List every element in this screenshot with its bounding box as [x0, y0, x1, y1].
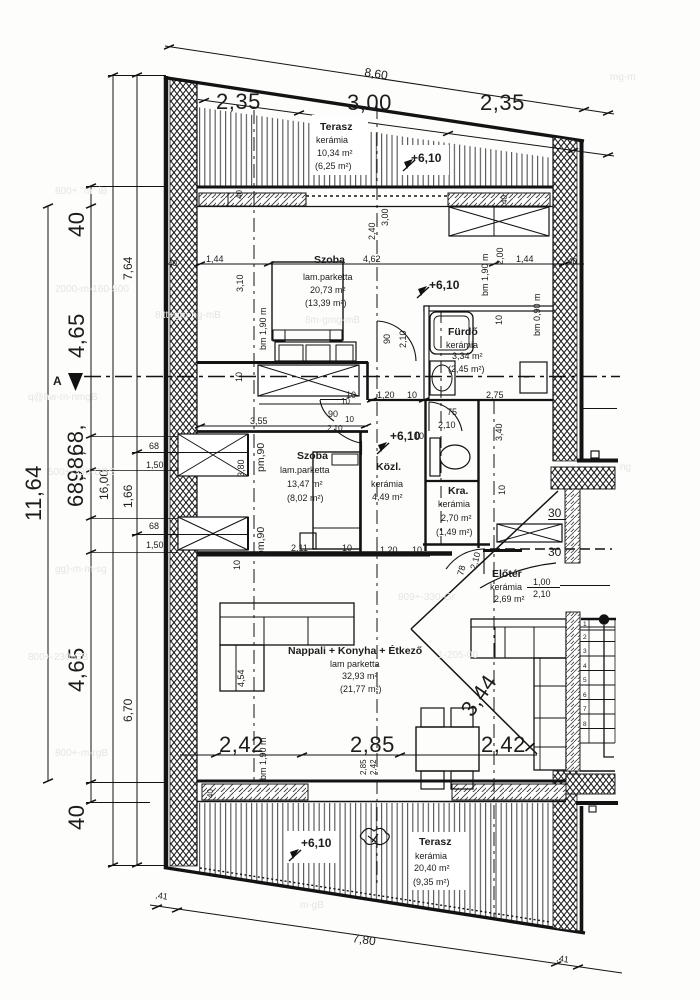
- Fuerdoe north wall double line: [424, 306, 553, 311]
- svg-text:lam parketta: lam parketta: [330, 659, 380, 669]
- right horizontal crosshatch strip below corner: [551, 467, 615, 489]
- bottom terrace hatch end dotted line: [200, 868, 550, 922]
- svg-text:1,20: 1,20: [377, 390, 395, 400]
- window2 axis line: [132, 534, 248, 536]
- svg-text:3,00: 3,00: [347, 90, 392, 115]
- svg-text:(2,45 m²): (2,45 m²): [448, 364, 485, 374]
- parapet right hatched strip: [448, 193, 550, 206]
- svg-text:32,93 m²: 32,93 m²: [342, 671, 378, 681]
- label Szoba2: [280, 450, 330, 503]
- svg-text:2,11: 2,11: [291, 543, 308, 553]
- label Eloeter: [490, 568, 525, 604]
- svg-text:10: 10: [345, 415, 354, 424]
- level +6,10 top terrace: [399, 145, 449, 175]
- inner face line of right wall upper: [552, 137, 554, 461]
- entry door arc: [480, 563, 556, 588]
- svg-text:40: 40: [64, 212, 89, 237]
- svg-text:+6,10: +6,10: [390, 429, 421, 443]
- plant on terrace: [360, 828, 389, 844]
- WC east wall: [477, 400, 479, 548]
- door Szoba1 leaf and arc: [377, 321, 416, 362]
- Szoba2 north wall: [197, 430, 368, 433]
- svg-text:1,50: 1,50: [146, 460, 164, 470]
- svg-text:40: 40: [64, 805, 89, 830]
- below-stairs thick line: [576, 801, 618, 805]
- stair treads: [580, 627, 615, 743]
- south parapet left hatched strip: [202, 784, 308, 800]
- svg-text:10: 10: [497, 485, 507, 495]
- left exterior wall outer thick line: [164, 76, 169, 869]
- svg-text:30: 30: [548, 506, 562, 520]
- svg-text:(6,25 m²): (6,25 m²): [315, 161, 352, 171]
- svg-text:10: 10: [342, 543, 352, 553]
- below thick line bump: [589, 806, 596, 812]
- door Eloeter from Koezl leaf and arc: [446, 548, 484, 574]
- svg-text:1,66: 1,66: [121, 484, 135, 508]
- svg-text:4: 4: [583, 663, 587, 670]
- svg-text:40: 40: [168, 259, 177, 268]
- svg-text:Nappali + Konyha + Étkező: Nappali + Konyha + Étkező: [288, 644, 422, 657]
- svg-text:1: 1: [583, 621, 587, 628]
- svg-text:2,85: 2,85: [350, 732, 395, 757]
- sofa L living room horizontal part: [220, 603, 354, 645]
- chain 16,00: [112, 75, 114, 865]
- stair handrail: [604, 625, 614, 757]
- svg-text:pm,90: pm,90: [255, 527, 267, 556]
- svg-text:4,49 m²: 4,49 m²: [372, 492, 403, 502]
- svg-text:1,50: 1,50: [146, 540, 164, 550]
- svg-text:809+-330-Gr: 809+-330-Gr: [398, 592, 456, 603]
- svg-text:1-205-00: 1-205-00: [438, 650, 478, 661]
- svg-text:2,42: 2,42: [369, 759, 378, 775]
- Eloeter north wall segment: [483, 549, 522, 552]
- svg-text:Terasz: Terasz: [419, 836, 452, 848]
- terrace parapet wall top line: [197, 186, 553, 189]
- chain tick extension lines: [91, 436, 178, 438]
- svg-text:2,10: 2,10: [438, 420, 456, 430]
- svg-text:30: 30: [548, 545, 562, 559]
- knee line upper diagonal: [411, 491, 558, 629]
- svg-text:68: 68: [149, 521, 159, 531]
- corridor north line below wardrobe: [259, 403, 361, 405]
- label Szoba1: [303, 254, 353, 308]
- right side diagonal-hatch pier band: [565, 489, 580, 563]
- svg-text:Szoba: Szoba: [314, 254, 345, 266]
- dim 7,80 line: [150, 905, 622, 973]
- svg-text:(8,02 m²): (8,02 m²): [287, 493, 324, 503]
- svg-text:68,: 68,: [63, 475, 88, 507]
- svg-text:68: 68: [149, 441, 159, 451]
- svg-text:(13,39 m²): (13,39 m²): [305, 298, 347, 308]
- svg-text:2,35: 2,35: [216, 89, 261, 114]
- knee line lower diagonal 3,44 dim: [411, 629, 537, 754]
- svg-text:8: 8: [583, 721, 587, 728]
- svg-text:lam.parketta: lam.parketta: [280, 465, 330, 475]
- svg-text:4,54: 4,54: [236, 669, 246, 687]
- svg-text:(1,49 m²): (1,49 m²): [436, 527, 473, 537]
- label Fuerdoe: [446, 326, 485, 374]
- extension line building top corner: [108, 75, 166, 77]
- svg-text:Szoba: Szoba: [297, 450, 328, 462]
- svg-text:40: 40: [206, 789, 215, 798]
- svg-text:2,85: 2,85: [359, 759, 368, 775]
- svg-text:10: 10: [234, 372, 244, 382]
- label Terasz bottom: [410, 832, 466, 890]
- dim row y264 Szoba1: [197, 263, 584, 265]
- stair step numbers: [583, 621, 587, 728]
- svg-text:Előtér: Előtér: [492, 568, 522, 580]
- kitchen counter vertical run: [534, 658, 566, 770]
- svg-text:7: 7: [583, 706, 587, 713]
- Szoba2 south wall thick band: [197, 551, 452, 556]
- svg-text:2,40: 2,40: [367, 222, 377, 240]
- dining table: [416, 727, 479, 771]
- wardrobe X-box below Szoba1 wall: [258, 365, 359, 396]
- svg-text:kerámia: kerámia: [371, 479, 403, 489]
- svg-text:3,80: 3,80: [236, 459, 246, 477]
- svg-text:6: 6: [583, 692, 587, 699]
- right exterior wall upper outer thick line: [580, 140, 584, 461]
- svg-text:10: 10: [232, 560, 242, 570]
- svg-text:2,35: 2,35: [480, 90, 525, 115]
- svg-text:8itt+gm-ng-mB: 8itt+gm-ng-mB: [155, 310, 221, 321]
- dim row y400: [367, 398, 377, 402]
- svg-text:+6,10: +6,10: [301, 836, 332, 850]
- stair side hatched band: [566, 612, 580, 771]
- svg-text:2,10: 2,10: [533, 589, 551, 599]
- svg-text:Közl.: Közl.: [376, 461, 401, 473]
- svg-text:Kra.: Kra.: [448, 485, 469, 497]
- svg-text:90: 90: [382, 334, 392, 344]
- right exterior wall upper hatched band: [553, 137, 577, 461]
- svg-text:,41: ,41: [556, 953, 570, 965]
- label Kra: [436, 485, 473, 537]
- svg-text:+6,10: +6,10: [429, 278, 460, 292]
- svg-text:20,40 m²: 20,40 m²: [414, 863, 450, 873]
- svg-text:3: 3: [583, 648, 587, 655]
- shaft X-box below right parapet: [449, 207, 549, 236]
- svg-text:kerámia: kerámia: [490, 582, 522, 592]
- left exterior wall hatched band: [170, 78, 197, 866]
- svg-text:bm 1,90 m: bm 1,90 m: [480, 253, 490, 296]
- svg-text:kerámia: kerámia: [415, 851, 447, 861]
- svg-text:Fürdő: Fürdő: [448, 326, 478, 338]
- dim 3,55 row: [197, 425, 368, 427]
- right upper corner return thick line: [577, 459, 618, 463]
- Fuerdoe south wall / dim line row: [368, 399, 553, 401]
- svg-text:800+-m-rgB: 800+-m-rgB: [55, 748, 108, 759]
- chain 11,64: [47, 206, 49, 781]
- door WC arc: [429, 402, 462, 431]
- svg-text:ng: ng: [620, 462, 631, 473]
- svg-text:7,64: 7,64: [121, 256, 135, 280]
- svg-text:1,00: 1,00: [533, 577, 551, 587]
- svg-text:1,44: 1,44: [516, 254, 534, 264]
- svg-text:+6,10: +6,10: [411, 151, 442, 165]
- svg-text:2,69 m²: 2,69 m²: [494, 594, 525, 604]
- parapet sliding door dotted line: [306, 195, 448, 197]
- left wall window X-box 1 inner edge: [247, 434, 249, 476]
- chain 7,64/1,66/6,70: [136, 75, 138, 865]
- svg-text:7,80: 7,80: [352, 931, 377, 948]
- stair right edge line: [614, 619, 616, 743]
- Eloeter shaft X-box: [497, 524, 562, 542]
- dim row y556: [197, 555, 430, 557]
- Koezl west wall stub: [366, 362, 369, 400]
- short line right mid y585: [560, 585, 610, 587]
- extension line bottom parapet: [86, 782, 165, 784]
- svg-text:2,00: 2,00: [495, 247, 505, 265]
- extension line building bottom corner: [108, 865, 166, 867]
- vertical grid dashed line bath: [440, 311, 442, 544]
- svg-text:10,34 m²: 10,34 m²: [317, 148, 353, 158]
- svg-text:2,70 m²: 2,70 m²: [441, 513, 472, 523]
- svg-text:2,75: 2,75: [486, 390, 504, 400]
- top roof edge slanted thick line: [164, 78, 584, 142]
- svg-text:(9,35 m²): (9,35 m²): [413, 877, 450, 887]
- svg-text:bm 1,90 m: bm 1,90 m: [258, 737, 268, 780]
- left wall window X-box 2 inner edge: [247, 517, 249, 550]
- svg-text:5: 5: [583, 677, 587, 684]
- svg-text:,41: ,41: [155, 890, 169, 902]
- svg-text:4,62: 4,62: [363, 254, 381, 264]
- section marker A triangle: [68, 373, 83, 391]
- faint scan watermarks: [28, 72, 636, 911]
- dining chairs bottom: [421, 771, 444, 789]
- section line A-A dash-dot: [84, 376, 620, 378]
- svg-text:mg-m: mg-m: [610, 72, 636, 83]
- terrace parapet left hatched strip: [199, 193, 306, 206]
- Fuerdoe west wall double line: [424, 306, 429, 400]
- svg-text:10: 10: [412, 545, 422, 555]
- stair top landing thick line with newel dot: [581, 618, 616, 621]
- corner bump square: [591, 451, 599, 458]
- svg-text:gg)-m-m-sg: gg)-m-m-sg: [55, 564, 107, 575]
- dim line 30 upper: [548, 519, 566, 521]
- right terrace outer thick line: [580, 806, 584, 932]
- top terrace slab hatched: [197, 107, 553, 186]
- label Terasz top: [312, 115, 368, 175]
- inner face line of left wall: [196, 82, 198, 866]
- svg-text:q@hw-m-nmgB: q@hw-m-nmgB: [28, 392, 98, 403]
- shower Fuerdoe: [430, 312, 473, 354]
- svg-text:40: 40: [500, 195, 509, 204]
- svg-text:1,20: 1,20: [380, 545, 398, 555]
- svg-text:3,40: 3,40: [494, 423, 504, 441]
- nightstand Szoba2: [300, 533, 316, 549]
- svg-text:2,42: 2,42: [481, 732, 526, 757]
- svg-text:3,34 m²: 3,34 m²: [452, 351, 483, 361]
- living room south parapet top line: [197, 780, 566, 783]
- svg-text:800+ "m" iB: 800+ "m" iB: [55, 186, 108, 197]
- dashed line through Eloeter box: [490, 548, 612, 550]
- WC / Kra divider wall: [426, 480, 478, 482]
- extension line bottom parapet 2: [86, 802, 150, 804]
- svg-text:3,10: 3,10: [235, 274, 245, 292]
- level +6,10 bottom terrace: [286, 831, 338, 863]
- Szoba2 east wall: [359, 431, 362, 553]
- dining chairs top: [421, 708, 444, 727]
- svg-text:4,65: 4,65: [64, 313, 89, 358]
- svg-text:bm 1,90 m: bm 1,90 m: [258, 307, 268, 350]
- svg-text:40: 40: [568, 257, 577, 266]
- svg-text:10: 10: [494, 315, 504, 325]
- sofa chaise part: [220, 645, 264, 691]
- svg-text:11,64: 11,64: [21, 465, 46, 521]
- svg-text:A: A: [53, 374, 62, 388]
- big dim row y754 2,42/2,85/2,42: [180, 754, 537, 756]
- door Szoba2 corridor leaf and arc: [320, 400, 346, 422]
- svg-text:bm 0,90 m: bm 0,90 m: [532, 293, 542, 336]
- label Nappali: [288, 644, 422, 694]
- right terrace side wall hatched band: [553, 771, 577, 931]
- bottom edge slanted thick line: [164, 868, 585, 934]
- left wall window X-box 1: [178, 434, 248, 476]
- svg-text:20,73 m²: 20,73 m²: [310, 285, 346, 295]
- svg-text:2,10: 2,10: [468, 551, 482, 571]
- south parapet bottom line: [197, 801, 566, 803]
- svg-text:13,47 m²: 13,47 m²: [287, 479, 323, 489]
- toilet WC: [430, 438, 440, 476]
- svg-text:3,55: 3,55: [250, 416, 268, 426]
- short line right of wall y408: [583, 408, 617, 410]
- svg-text:2: 2: [583, 634, 587, 641]
- label Koezl: [371, 461, 403, 502]
- svg-text:(21,77 m²): (21,77 m²): [340, 684, 382, 694]
- svg-text:1,44: 1,44: [206, 254, 224, 264]
- dim 2,35/3,00/2,35 line: [198, 100, 614, 157]
- svg-text:m-gB: m-gB: [300, 900, 324, 911]
- sofa cushions below bed: [275, 342, 356, 361]
- vertical grid dashed line right: [493, 400, 495, 920]
- svg-text:90: 90: [328, 409, 338, 419]
- svg-text:kerámia: kerámia: [316, 135, 348, 145]
- parapet bottom line: [197, 206, 553, 208]
- below-stairs line: [580, 770, 615, 772]
- svg-text:500+-330-GBS: 500+-330-GBS: [48, 467, 115, 478]
- svg-text:2000-m-160-500: 2000-m-160-500: [55, 284, 129, 295]
- svg-text:kerámia: kerámia: [438, 499, 470, 509]
- stair number column line: [588, 619, 590, 743]
- bottom terrace slab hatched: [197, 803, 553, 927]
- chain 40/4,65/68/98/68/4,65/40: [90, 186, 92, 802]
- extension line top parapet: [86, 186, 165, 188]
- below-stairs crosshatch strip: [566, 774, 615, 794]
- Szoba1 south wall: [197, 361, 368, 364]
- svg-text:kerámia: kerámia: [446, 340, 478, 350]
- svg-text:78: 78: [455, 564, 467, 576]
- south parapet right hatched strip: [452, 784, 566, 800]
- svg-text:3,00: 3,00: [380, 208, 390, 226]
- svg-text:10: 10: [407, 390, 417, 400]
- vertical grid center line: [376, 105, 378, 885]
- window1 axis line: [132, 452, 248, 454]
- door Szoba2 arc: [334, 429, 362, 455]
- svg-text:75: 75: [447, 407, 457, 417]
- svg-text:8,60: 8,60: [364, 65, 390, 82]
- washbasin: [430, 361, 455, 395]
- parapet left strip divider: [227, 193, 229, 206]
- svg-text:800+-230-GB: 800+-230-GB: [28, 652, 89, 663]
- bed Szoba2: [313, 452, 360, 549]
- svg-text:2,10: 2,10: [398, 330, 408, 348]
- dim 8,60 line: [165, 46, 614, 114]
- washing machine niche: [520, 362, 547, 393]
- svg-text:6,70: 6,70: [121, 698, 135, 722]
- bed Szoba1: [272, 262, 343, 340]
- svg-text:2,10: 2,10: [327, 424, 343, 433]
- svg-text:8m-gmg-mB: 8m-gmg-mB: [305, 315, 360, 326]
- svg-text:10: 10: [341, 397, 350, 406]
- svg-text:lam.parketta: lam.parketta: [303, 272, 353, 282]
- WC west wall: [424, 400, 426, 551]
- kitchen counter top run: [471, 619, 566, 658]
- svg-text:pm,90: pm,90: [255, 443, 267, 472]
- svg-text:40: 40: [235, 190, 244, 199]
- svg-text:Terasz: Terasz: [320, 121, 353, 133]
- vertical grid dashed line left: [253, 110, 255, 780]
- left wall window X-box 2: [178, 517, 248, 550]
- Kra south wall: [423, 543, 490, 546]
